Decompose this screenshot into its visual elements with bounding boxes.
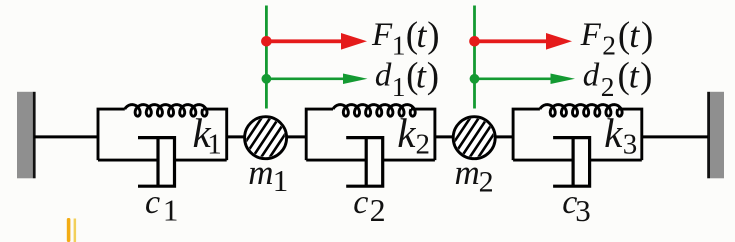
spring k1 branch: frame and coil: [98, 105, 227, 161]
node: displacement point on line 1 (green dot): [262, 74, 272, 84]
mass m2: hatched circle: [433, 115, 515, 160]
svg-text:): ): [427, 15, 439, 56]
svg-text:1: 1: [207, 128, 222, 160]
label F1(t): [371, 15, 440, 61]
label c2: [353, 184, 385, 228]
svg-text:1: 1: [163, 193, 179, 228]
label c1: [145, 184, 178, 227]
wire: unit 3 to right wall: [642, 135, 708, 138]
svg-text:1: 1: [392, 71, 406, 102]
label F2(t): [580, 15, 654, 61]
displacement arrow d2: [475, 74, 576, 85]
spring k2 branch: frame and coil: [306, 105, 435, 161]
svg-text:): ): [427, 56, 439, 97]
damper c3: bottom rail, piston and cylinder: [513, 138, 642, 187]
left wall: [17, 92, 36, 179]
label k1: [193, 110, 222, 160]
label m2: [455, 153, 494, 198]
label k2: [397, 110, 430, 160]
measurement line above mass m1 (green vertical reference line): [265, 6, 268, 109]
svg-text:m: m: [455, 153, 480, 192]
label k3: [604, 110, 637, 160]
svg-text:t: t: [416, 56, 427, 96]
svg-text:3: 3: [623, 128, 638, 160]
svg-text:c: c: [145, 184, 160, 221]
wire: unit 1 to mass m1: [227, 135, 246, 138]
wire: unit 2 to mass m2: [435, 135, 455, 138]
measurement line above mass m2 (green vertical reference line): [473, 6, 476, 109]
svg-text:): ): [640, 56, 652, 97]
right wall: [707, 92, 724, 179]
force arrow F1: [266, 33, 367, 50]
label d1(t): [375, 56, 439, 102]
svg-text:c: c: [353, 184, 368, 221]
label d2(t): [583, 56, 653, 103]
node: force application point on line 1 (red dot): [261, 36, 272, 47]
cursor artifact: yellow bar: [74, 219, 77, 242]
svg-text:): ): [641, 15, 653, 56]
wire: left wall to unit 1: [34, 135, 98, 138]
svg-text:2: 2: [601, 71, 615, 102]
damper c1: bottom rail, piston and cylinder: [98, 138, 227, 187]
damper c2: bottom rail, piston and cylinder: [306, 138, 435, 187]
svg-text:d: d: [583, 58, 600, 94]
wire: mass m2 to unit 3: [494, 135, 513, 138]
svg-text:k: k: [397, 110, 416, 156]
svg-text:2: 2: [416, 128, 431, 160]
svg-text:t: t: [629, 15, 640, 55]
label c3: [562, 184, 591, 228]
svg-text:2: 2: [602, 30, 616, 61]
cursor artifact: orange bar: [67, 218, 71, 242]
spring k3 branch: frame and coil: [513, 105, 642, 161]
svg-text:t: t: [416, 15, 427, 55]
node: displacement point on line 2 (green dot): [470, 74, 480, 84]
wire: mass m1 to unit 2: [286, 135, 307, 138]
svg-text:k: k: [604, 110, 623, 156]
svg-text:1: 1: [273, 163, 289, 198]
svg-text:F: F: [371, 17, 393, 53]
svg-text:2: 2: [479, 165, 494, 198]
svg-text:m: m: [248, 153, 273, 192]
displacement arrow d1: [266, 74, 367, 85]
label m1: [248, 153, 288, 198]
svg-text:1: 1: [392, 30, 406, 61]
svg-text:d: d: [375, 58, 392, 94]
mass m1: hatched circle: [225, 115, 307, 160]
svg-text:2: 2: [370, 192, 386, 228]
svg-text:F: F: [580, 17, 602, 53]
force arrow F2: [475, 33, 573, 50]
node: force application point on line 2 (red dot): [469, 36, 480, 47]
svg-text:3: 3: [575, 193, 591, 228]
svg-text:t: t: [629, 56, 640, 96]
